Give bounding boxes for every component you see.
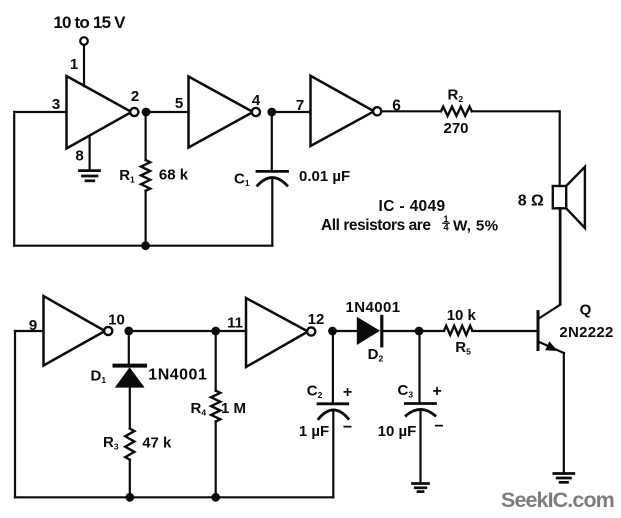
node at pin 10	[124, 327, 133, 336]
svg-text:R2: R2	[448, 87, 464, 105]
svg-text:11: 11	[227, 315, 243, 332]
diode D2 1N4001	[357, 316, 419, 345]
wire node12 to D2	[333, 330, 357, 332]
svg-text:D2: D2	[368, 346, 384, 364]
svg-text:+: +	[343, 384, 352, 401]
node R1 bottom	[141, 241, 150, 250]
capacitor C2 1uF	[318, 331, 348, 497]
svg-text:D1: D1	[91, 368, 107, 386]
speaker 8 ohm	[553, 167, 585, 228]
node after D2	[415, 327, 424, 336]
svg-text:−: −	[343, 419, 352, 436]
svg-text:1N4001: 1N4001	[346, 299, 401, 316]
resistor R5 10k	[444, 326, 472, 335]
svg-text:2N2222: 2N2222	[559, 324, 613, 341]
svg-text:10 µF: 10 µF	[378, 423, 417, 440]
wire node to R5	[419, 330, 444, 332]
svg-text:10: 10	[108, 312, 125, 329]
svg-text:Q: Q	[580, 302, 592, 319]
power terminal 10 to 15 V	[53, 13, 126, 45]
node at pin 2	[142, 108, 151, 117]
svg-text:IC - 4049: IC - 4049	[379, 198, 446, 215]
svg-text:7: 7	[296, 97, 304, 114]
resistor R4 1M	[211, 331, 220, 497]
svg-text:R4: R4	[191, 400, 207, 418]
node at pin 4	[267, 108, 276, 117]
wire pin1 to power	[83, 45, 85, 86]
transistor Q 2N2222	[538, 208, 564, 473]
svg-text:−: −	[434, 418, 443, 435]
output bubble pin 6	[373, 107, 381, 115]
node at pin 11	[211, 327, 220, 336]
svg-text:1 µF: 1 µF	[299, 423, 329, 440]
svg-text:1: 1	[70, 56, 78, 73]
capacitor C1 0.01uF	[257, 112, 288, 246]
output bubble pin 4	[252, 108, 260, 116]
wire node4 to pin7	[272, 111, 311, 113]
node R4 bottom	[211, 493, 220, 502]
output bubble pin 12	[307, 327, 315, 335]
svg-text:All resistors are: All resistors are	[321, 217, 431, 234]
inverter U1d (pins 9-10)	[44, 296, 106, 366]
bottom feedback loop wire	[15, 331, 333, 497]
svg-text:R1: R1	[119, 167, 135, 185]
svg-text:1N4001: 1N4001	[148, 367, 207, 384]
top feedback loop wire (pin3 left rail and bottom)	[14, 112, 272, 246]
output bubble pin 2	[130, 108, 138, 116]
wire corner down to speaker	[559, 111, 561, 186]
svg-text:W, 5%: W, 5%	[453, 217, 499, 234]
wire pin9 input	[15, 330, 44, 332]
svg-text:10 k: 10 k	[447, 307, 477, 324]
svg-text:10 to 15 V: 10 to 15 V	[53, 13, 126, 32]
svg-text:68 k: 68 k	[159, 166, 189, 183]
output bubble pin 10	[104, 327, 112, 335]
wire R5 to base	[472, 330, 537, 332]
wire node11 to inverter	[216, 330, 246, 332]
wire speaker to collector	[559, 208, 561, 304]
node at pin 12	[328, 327, 337, 336]
node R3 bottom	[125, 493, 134, 502]
svg-text:1 M: 1 M	[221, 400, 246, 417]
wire pin6 to R2	[382, 110, 441, 112]
svg-text:270: 270	[443, 120, 468, 137]
resistor R3 47k	[125, 429, 134, 498]
capacitor C3 10uF	[405, 331, 435, 483]
diode D1 1N4001	[115, 331, 146, 429]
svg-text:47 k: 47 k	[142, 435, 172, 452]
ground (C3)	[413, 484, 429, 492]
svg-text:3: 3	[52, 96, 60, 113]
resistor R1 68k	[141, 112, 150, 246]
svg-text:8: 8	[75, 148, 83, 165]
ground (emitter)	[554, 474, 574, 483]
svg-text:5: 5	[175, 95, 183, 112]
svg-text:C2: C2	[307, 383, 323, 401]
inverter U1c (pins 7-6)	[311, 76, 375, 146]
svg-text:12: 12	[308, 311, 325, 328]
wire node2 to pin5	[146, 111, 189, 113]
inverter U1a (pins 3-2)	[67, 76, 132, 149]
inverter U1b (pins 5-4)	[189, 77, 254, 148]
wire pin 8	[88, 137, 90, 170]
svg-text:0.01 µF: 0.01 µF	[299, 168, 350, 185]
label All resistors are 1/4 W, 5%	[321, 214, 499, 235]
svg-text:+: +	[432, 383, 441, 400]
ground (pin 8)	[80, 171, 100, 181]
svg-text:C3: C3	[398, 382, 414, 400]
wire R2 to corner	[472, 110, 560, 112]
wire node10 to node11	[129, 330, 216, 332]
svg-text:4: 4	[252, 92, 261, 109]
inverter U1e (pins 11-12)	[246, 298, 308, 367]
resistor R2 270	[441, 107, 472, 116]
svg-text:R5: R5	[455, 339, 471, 357]
svg-text:C1: C1	[234, 171, 250, 189]
svg-text:SeekIC.com: SeekIC.com	[501, 488, 614, 512]
svg-text:8 Ω: 8 Ω	[518, 193, 544, 210]
svg-text:4: 4	[443, 223, 449, 234]
svg-text:2: 2	[131, 88, 139, 105]
svg-text:R3: R3	[103, 434, 119, 452]
